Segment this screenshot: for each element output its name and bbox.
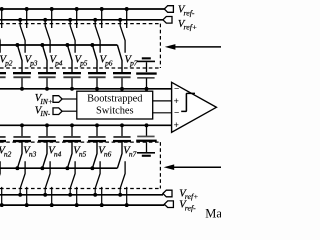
svg-text:n5: n5 <box>79 149 87 158</box>
svg-text:Bootstrapped: Bootstrapped <box>87 94 143 105</box>
svg-text:p2: p2 <box>4 58 13 67</box>
svg-text:+: + <box>174 96 179 106</box>
svg-text:IN+: IN+ <box>39 97 52 106</box>
svg-text:n2: n2 <box>4 149 12 158</box>
svg-text:ref-: ref- <box>184 8 195 17</box>
svg-text:n7: n7 <box>129 149 137 158</box>
svg-text:p6: p6 <box>104 58 113 67</box>
svg-text:n4: n4 <box>54 149 62 158</box>
svg-text:p7: p7 <box>129 58 138 67</box>
svg-text:p5: p5 <box>79 58 88 67</box>
svg-text:ref+: ref+ <box>184 23 198 32</box>
svg-text:p3: p3 <box>29 58 38 67</box>
svg-text:ref+: ref+ <box>185 192 199 201</box>
svg-text:−: − <box>174 108 179 118</box>
svg-text:p4: p4 <box>54 58 63 67</box>
svg-text:Switches: Switches <box>96 105 134 116</box>
svg-text:ref-: ref- <box>185 203 196 212</box>
svg-text:IN-: IN- <box>39 109 50 118</box>
svg-text:n6: n6 <box>104 149 112 158</box>
svg-text:Ma: Ma <box>205 206 221 220</box>
svg-text:n3: n3 <box>29 149 37 158</box>
svg-text:−: − <box>174 84 179 94</box>
svg-text:+: + <box>174 120 179 130</box>
